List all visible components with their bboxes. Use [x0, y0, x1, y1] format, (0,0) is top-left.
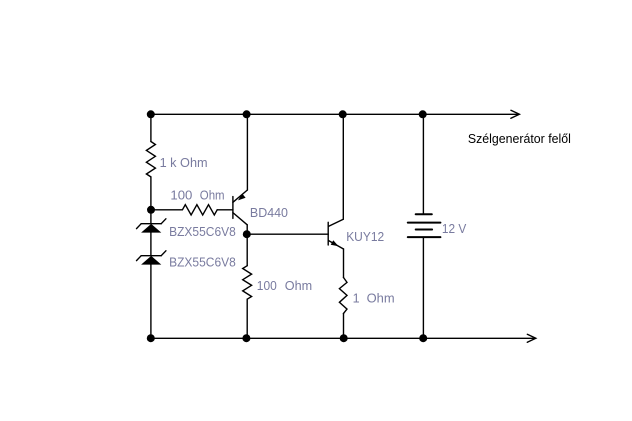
wire 100 Ohm vertical resistor to bottom rail [246, 299, 248, 338]
wire 100 Ohm resistor to BD440 base [217, 209, 233, 211]
wire bottom rail [151, 337, 535, 339]
node top rail junction 2 [243, 110, 251, 118]
arrow bottom rail right [527, 334, 536, 342]
zener diode BZX55C6V8 lower [137, 251, 166, 265]
node base tap junction [147, 206, 155, 214]
node bottom rail junction 4 [419, 334, 427, 342]
transistor KUY12 [328, 219, 343, 249]
svg-text:1: 1 [353, 291, 360, 305]
wire base tap to 100 Ohm resistor [151, 209, 182, 211]
wire left column mid (1k resistor to zener 1) [150, 177, 152, 224]
node bottom rail junction 2 [242, 334, 250, 342]
svg-text:1 k Ohm: 1 k Ohm [160, 156, 208, 170]
wire top rail [151, 113, 518, 115]
wire between zener diodes [150, 233, 152, 256]
wire 1 Ohm resistor to bottom rail [343, 314, 345, 339]
svg-text:Szélgenerátor felől: Szélgenerátor felől [468, 131, 571, 146]
wire left column top (rail to 1k resistor) [150, 114, 152, 141]
svg-text:Ohm: Ohm [367, 291, 395, 305]
wire BD440 emitter to top rail [246, 114, 248, 190]
wire KUY12 collector to top rail [342, 114, 344, 219]
node BD440 collector junction [243, 230, 251, 238]
svg-text:12 V: 12 V [442, 222, 467, 236]
resistor 1 k Ohm [146, 142, 155, 177]
arrow top rail right [511, 110, 520, 118]
zener diode BZX55C6V8 upper [137, 219, 166, 233]
wire battery top (rail to battery) [422, 114, 424, 213]
node top rail junction 4 [419, 110, 427, 118]
node top rail junction 3 [339, 110, 347, 118]
node bottom rail junction 3 [340, 334, 348, 342]
svg-text:BD440: BD440 [250, 206, 288, 220]
wire collector junction to KUY12 base [247, 233, 328, 235]
node bottom rail junction 1 [147, 334, 155, 342]
label 100 Ohm (horizontal resistor) [170, 188, 224, 202]
resistor 1 Ohm [339, 277, 347, 313]
transistor BD440 [233, 190, 248, 234]
wire battery bottom (battery to bottom rail) [422, 238, 424, 338]
resistor 100 Ohm horizontal [182, 205, 217, 215]
wire KUY12 emitter to 1 Ohm resistor [343, 249, 345, 277]
svg-text:BZX55C6V8: BZX55C6V8 [169, 255, 236, 269]
svg-text:Ohm: Ohm [200, 188, 225, 202]
battery 12 V [408, 214, 441, 237]
wire collector junction to 100 Ohm vertical resistor [246, 234, 248, 266]
svg-text:Ohm: Ohm [285, 279, 312, 293]
label 100 Ohm (vertical resistor) [257, 279, 312, 293]
svg-text:100: 100 [170, 188, 192, 202]
node top rail junction 1 [147, 110, 155, 118]
resistor 100 Ohm vertical [243, 266, 252, 300]
wire left column bottom (zener 2 to bottom rail) [150, 265, 152, 339]
svg-text:KUY12: KUY12 [346, 230, 384, 244]
svg-text:BZX55C6V8: BZX55C6V8 [169, 225, 236, 239]
label 1 Ohm [353, 291, 395, 305]
svg-text:100: 100 [257, 279, 277, 293]
